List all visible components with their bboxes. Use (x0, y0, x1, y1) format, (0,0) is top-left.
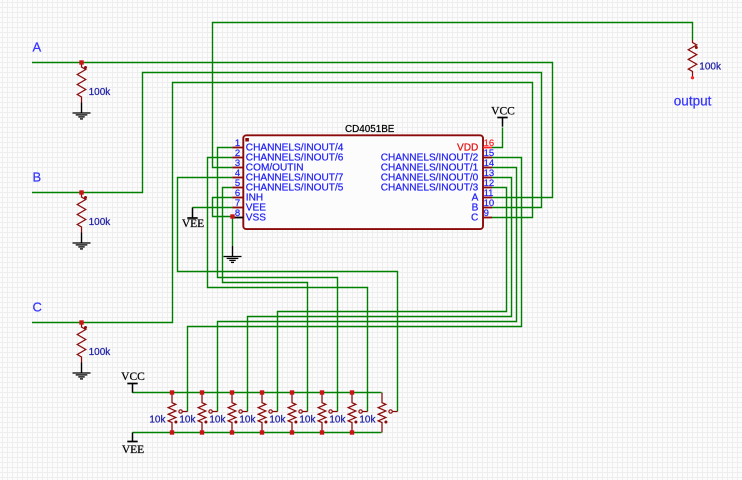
wire channel 3 net from pin 12 to R4 wiper (278, 188, 507, 412)
resistor RA 100k (77, 63, 86, 103)
power symbol VEE of ladder (132, 433, 134, 442)
ground under RC (81, 363, 83, 374)
pin 2 stub (232, 157, 243, 159)
svg-text:100k: 100k (89, 217, 112, 228)
svg-text:VEE: VEE (182, 218, 204, 230)
junction RP1 bottom rail (170, 430, 174, 434)
svg-text:10k: 10k (359, 415, 376, 426)
pin 7 stub (232, 207, 243, 209)
wire channel 1 net from pin 14 to R2 wiper (218, 168, 517, 412)
svg-text:output: output (674, 94, 712, 109)
svg-text:CHANNELS/INOUT/3: CHANNELS/INOUT/3 (381, 182, 479, 193)
junction RP6 bottom rail (320, 430, 324, 434)
pin 5 stub (232, 187, 243, 189)
potentiometer RP6 10k (318, 393, 326, 433)
wire output net from pin 3 COM to output resistor (213, 23, 693, 168)
svg-text:10k: 10k (239, 415, 256, 426)
wire channel 7 net from pin 4 to R8 wiper (178, 178, 398, 412)
junction RP4 top rail (260, 390, 264, 394)
wire VSS junction to ground (232, 217, 234, 247)
svg-text:100k: 100k (89, 87, 112, 98)
svg-text:CD4051BE: CD4051BE (345, 124, 395, 135)
junction RP5 bottom rail (290, 430, 294, 434)
wire VCC rail of ladder (133, 392, 382, 394)
svg-text:8: 8 (235, 208, 240, 219)
pin 14 stub (483, 167, 492, 169)
pin 12 stub (483, 187, 492, 189)
ground under RB (81, 233, 83, 244)
svg-text:9: 9 (484, 208, 489, 219)
junction RP1 top rail (170, 390, 174, 394)
potentiometer RP4 10k (258, 393, 266, 433)
svg-text:VCC: VCC (491, 106, 515, 118)
junction RP7 top rail (350, 390, 354, 394)
svg-text:C: C (33, 300, 42, 315)
pin 10 stub (483, 207, 492, 209)
pin 3 stub (232, 167, 243, 169)
svg-text:VCC: VCC (121, 371, 145, 383)
svg-text:VEE: VEE (122, 444, 144, 456)
potentiometer RP7 10k (348, 393, 356, 433)
pin 4 stub (232, 177, 243, 179)
junction RP3 top rail (230, 390, 234, 394)
junction node A (79, 60, 83, 64)
svg-text:VSS: VSS (246, 212, 266, 223)
pin 11 stub (483, 197, 492, 199)
wire channel 2 net from pin 15 to R1 wiper (188, 158, 522, 412)
junction RP7 bottom rail (350, 430, 354, 434)
resistor Rout 100k (688, 40, 697, 78)
wire INH net from pin 6 to VSS junction (213, 198, 233, 217)
potentiometer RP8 10k (378, 393, 386, 433)
junction RP2 bottom rail (200, 430, 204, 434)
wire net B from node B to pin 10 (32, 73, 542, 208)
potentiometer RP2 10k (198, 393, 206, 433)
wire net C from node C to pin 9 (32, 83, 533, 323)
potentiometer RP3 10k (228, 393, 236, 433)
svg-text:100k: 100k (699, 62, 722, 73)
wire channel 5 net from pin 5 to R5 wiper (223, 188, 308, 412)
svg-text:10k: 10k (209, 415, 226, 426)
svg-text:10k: 10k (329, 415, 346, 426)
junction RP4 bottom rail (260, 430, 264, 434)
pin 1 stub (232, 147, 243, 149)
resistor RC 100k (77, 323, 86, 363)
svg-text:100k: 100k (89, 347, 112, 358)
junction node C (79, 320, 83, 324)
pin 6 stub (232, 197, 243, 199)
wire pin 7 to VEE symbol (193, 207, 233, 209)
svg-text:10k: 10k (269, 415, 286, 426)
junction RP2 top rail (200, 390, 204, 394)
junction RP5 top rail (290, 390, 294, 394)
svg-text:10k: 10k (149, 415, 166, 426)
pin 1 origin marker (245, 138, 249, 142)
junction node B (79, 190, 83, 194)
ground under RA (81, 103, 83, 114)
wire net A from node A to pin 11 (32, 63, 553, 198)
ground under VSS junction (232, 246, 234, 257)
junction RP6 top rail (320, 390, 324, 394)
svg-text:B: B (33, 170, 42, 185)
pin 13 stub (483, 177, 492, 179)
svg-text:10k: 10k (179, 415, 196, 426)
wire VEE rail of ladder (133, 432, 382, 434)
power symbol VCC at pin 16 (497, 117, 507, 119)
junction RP3 bottom rail (230, 430, 234, 434)
svg-text:A: A (33, 40, 42, 55)
pin 8 stub (232, 217, 243, 219)
wire channel 4 net from pin 1 to R6 wiper (218, 148, 338, 412)
potentiometer RP1 10k (168, 393, 176, 433)
resistor RB 100k (77, 193, 86, 233)
potentiometer RP5 10k (288, 393, 296, 433)
junction VSS INH ground node (230, 214, 234, 218)
pin 15 stub (483, 157, 492, 159)
wire pin 16 VDD to VCC symbol (492, 128, 503, 148)
wire channel 6 net from pin 2 to R7 wiper (208, 158, 368, 412)
svg-text:C: C (471, 212, 478, 223)
power symbol VCC of ladder (127, 383, 137, 385)
svg-text:10k: 10k (299, 415, 316, 426)
op IC U1 CD4051BE body (243, 135, 483, 229)
pin 16 stub (483, 147, 492, 149)
wire channel 0 net from pin 13 to R3 wiper (248, 178, 512, 412)
pin 9 stub (483, 217, 492, 219)
power symbol VEE at pin 7 (192, 208, 194, 219)
